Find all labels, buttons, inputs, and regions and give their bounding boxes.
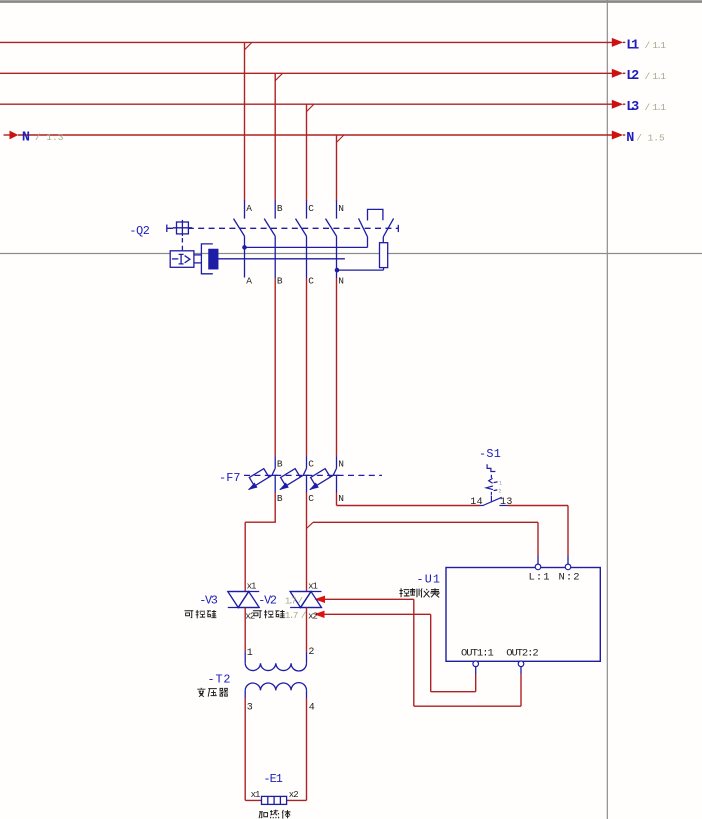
wire N bus left tail bbox=[4, 134, 10, 136]
E1 heating element body bbox=[262, 796, 287, 804]
T2 secondary left stub bbox=[244, 690, 246, 698]
svg-text:-F7: -F7 bbox=[219, 471, 241, 485]
destination arrow L2 bbox=[612, 69, 623, 78]
svg-text:A: A bbox=[246, 203, 252, 214]
wire down to L:1 bbox=[537, 522, 539, 555]
wire L3 bus bbox=[0, 103, 612, 105]
svg-text:L1: L1 bbox=[626, 38, 639, 53]
Q2 residual current solenoid (filled) bbox=[209, 249, 218, 268]
wire N drop to pole N bbox=[336, 135, 338, 201]
wire N bus bbox=[18, 134, 612, 136]
svg-text:-U1: -U1 bbox=[417, 572, 441, 586]
E1 function text 加热体 bbox=[259, 810, 290, 819]
Q2 overcurrent release box I> bbox=[170, 251, 194, 267]
svg-text:A: A bbox=[246, 275, 252, 286]
V2 triac right triangle bbox=[301, 592, 322, 608]
junction diagonal N bbox=[337, 135, 344, 142]
svg-text:C: C bbox=[308, 275, 314, 286]
Q2 I> symbol left tick bbox=[172, 258, 178, 260]
svg-text:B: B bbox=[277, 458, 283, 469]
F7 pole B bottom stub bbox=[274, 475, 276, 492]
V2 function text 可控硅 bbox=[253, 610, 285, 619]
T2 function text 变压器 bbox=[197, 688, 228, 697]
svg-text:4: 4 bbox=[309, 703, 315, 714]
F7 mechanical linkage dashed line bbox=[244, 474, 382, 476]
F7 pole N top stub bbox=[336, 457, 338, 469]
svg-text:N: N bbox=[338, 203, 344, 214]
svg-text:N: N bbox=[22, 130, 30, 145]
Q2 pole A bottom stub bbox=[244, 236, 246, 277]
wire OUT2 left bbox=[414, 705, 521, 707]
svg-text:2: 2 bbox=[498, 489, 501, 495]
S1 linkage dash upper bbox=[490, 475, 492, 478]
Q2 trip bar line bbox=[218, 258, 345, 260]
S1 contact blade 13-14 bbox=[483, 497, 502, 505]
svg-text:x1: x1 bbox=[247, 582, 257, 592]
S1 position dash 1 bbox=[494, 481, 498, 484]
E1 element divider 1 bbox=[267, 796, 269, 804]
svg-text:/ 1.5: / 1.5 bbox=[636, 133, 665, 144]
F7 pole B thermal bump bbox=[249, 469, 269, 486]
Q2 test contact left lower stub bbox=[367, 237, 369, 248]
Q2 release to coil stub lower bbox=[194, 262, 202, 264]
Q2 I> symbol letter I bbox=[179, 254, 184, 264]
V3 triac left triangle bbox=[228, 592, 249, 608]
destination arrow N right bbox=[612, 131, 623, 140]
V3 triac right triangle bbox=[238, 592, 259, 608]
S1 left terminal tick bbox=[480, 505, 484, 507]
Q2 test button cross vertical bbox=[181, 220, 183, 236]
wire F7 N down bbox=[336, 493, 338, 506]
wire OUT1 up bbox=[430, 614, 432, 691]
F7 pole C blade bbox=[280, 468, 307, 489]
wire T2 pin3 down to E1 bbox=[244, 698, 246, 800]
svg-text:/ 1.1: / 1.1 bbox=[645, 71, 667, 82]
Q2 test wire from pole A bbox=[245, 246, 368, 248]
arrow L3 tail bbox=[623, 103, 625, 105]
svg-text:B: B bbox=[277, 275, 283, 286]
svg-text:N: N bbox=[626, 131, 634, 146]
Q2 linkage right end tick bbox=[397, 225, 399, 232]
T2 primary winding bbox=[245, 663, 306, 671]
svg-text:2: 2 bbox=[308, 647, 314, 658]
Q2 test contact left blade bbox=[359, 218, 368, 236]
svg-text:1: 1 bbox=[247, 648, 253, 659]
Q2 pole A top stub bbox=[244, 201, 246, 219]
wire V3 x2 down to T2 pin1 bbox=[244, 608, 246, 653]
Q2 test button cross horizontal bbox=[173, 227, 192, 229]
svg-text:L:1: L:1 bbox=[529, 572, 550, 584]
Q2 test return wire to pole N bbox=[337, 269, 384, 271]
svg-text:OUT1:1: OUT1:1 bbox=[461, 647, 494, 659]
interrupt arrow to V2 x2 lower bbox=[314, 611, 325, 618]
wire OUT2 up bbox=[413, 599, 415, 706]
Q2 test contact right blade bbox=[383, 218, 393, 236]
svg-text:-T2: -T2 bbox=[208, 672, 231, 686]
wire down to N:2 bbox=[567, 506, 569, 556]
junction dot pole A bbox=[242, 245, 247, 250]
U1 OUT1 blue stub bbox=[475, 667, 477, 674]
junction dot pole N bbox=[335, 268, 340, 273]
T2 secondary winding bbox=[245, 683, 306, 691]
Q2 pole B blade bbox=[264, 219, 275, 237]
Q2 I> symbol greater-than bbox=[185, 256, 190, 263]
Q2 pole C blade bbox=[296, 219, 307, 237]
wire L1 bus bbox=[0, 41, 612, 43]
svg-text:/ 1.1: / 1.1 bbox=[645, 102, 667, 113]
Q2 pole B bottom stub bbox=[274, 236, 276, 278]
T2 primary right stub bbox=[306, 653, 308, 664]
svg-text:x1: x1 bbox=[251, 790, 261, 800]
destination arrow L1 bbox=[612, 38, 623, 47]
Q2 coil bracket bbox=[201, 244, 212, 274]
wire S1 to N:2 corner bbox=[508, 505, 568, 507]
S1 linkage to blade bbox=[490, 496, 492, 502]
F7 pole C thermal bump bbox=[281, 469, 301, 486]
svg-text:N: N bbox=[338, 493, 344, 504]
U1 function text 控制仪表 bbox=[400, 588, 440, 597]
svg-text:N: N bbox=[338, 275, 344, 286]
wire OUT1 down bbox=[475, 674, 477, 692]
F7 pole N trip arrow bbox=[309, 483, 319, 491]
Q2 pole A blade bbox=[234, 219, 245, 237]
svg-text:x2: x2 bbox=[289, 790, 299, 800]
wire down to V3 bbox=[244, 522, 246, 591]
T2 secondary right stub bbox=[306, 690, 308, 698]
svg-text:C: C bbox=[308, 458, 314, 469]
wire L3 drop to pole C bbox=[306, 104, 308, 201]
V3 triac top bar bbox=[228, 591, 259, 593]
wire V2 x2 down to T2 pin2 bbox=[306, 608, 308, 653]
wire L1 drop to pole A bbox=[244, 42, 246, 201]
V2 triac bottom bar bbox=[290, 607, 321, 609]
svg-text:3: 3 bbox=[247, 703, 253, 714]
svg-text:14: 14 bbox=[470, 497, 482, 508]
Q2 pole N bottom stub bbox=[336, 236, 338, 278]
Q2 pole B top stub bbox=[274, 201, 276, 219]
Q2 pole C bottom stub bbox=[306, 236, 308, 278]
F7 pole B trip arrow bbox=[248, 483, 258, 491]
E1 element divider 2 bbox=[273, 796, 275, 804]
wire OUT2 down bbox=[520, 674, 522, 706]
arrow L1 tail bbox=[623, 41, 625, 43]
svg-text:-Q2: -Q2 bbox=[129, 224, 150, 238]
junction diagonal L2 bbox=[275, 73, 282, 80]
interrupt arrow to V2 gate upper bbox=[315, 596, 326, 603]
S1 right terminal segment bbox=[499, 505, 507, 507]
Q2 pole C top stub bbox=[306, 201, 308, 219]
junction diagonal C branch bbox=[307, 522, 314, 528]
wire pole N down to F7 bbox=[336, 278, 338, 457]
Q2 mechanical linkage dashed line bbox=[167, 227, 398, 229]
wire F7 B jog left bbox=[245, 521, 276, 523]
wire F7 N to S1 bbox=[337, 505, 480, 507]
E1 element divider 3 bbox=[279, 796, 281, 804]
svg-text:/ 1.1: / 1.1 bbox=[645, 40, 667, 51]
F7 pole B pivot tick bbox=[272, 474, 278, 476]
source arrow N left bbox=[10, 131, 19, 140]
Q2 test contact right lower stub bbox=[382, 237, 384, 243]
wire F7 B down bbox=[274, 493, 276, 523]
wire L2 bus bbox=[0, 72, 612, 74]
svg-text:-V3: -V3 bbox=[199, 593, 218, 607]
wire C branch to U1 L terminal bbox=[313, 521, 538, 523]
wire OUT1 left bbox=[431, 691, 476, 693]
S1 detent zigzag upper bbox=[489, 478, 493, 483]
Q2 pole N blade bbox=[326, 219, 337, 237]
S1 position dash 2 bbox=[494, 489, 498, 492]
svg-text:L3: L3 bbox=[626, 100, 639, 115]
S1 linkage dash lower bbox=[490, 492, 492, 495]
wire T2 pin4 down to E1 bbox=[306, 698, 308, 800]
wire F7 C down to V2 bbox=[306, 493, 308, 592]
T2 primary left stub bbox=[244, 653, 246, 664]
F7 pole N blade bbox=[310, 468, 337, 489]
arrow N tail bbox=[623, 134, 625, 136]
svg-text:1: 1 bbox=[499, 481, 502, 487]
wire pole B down to F7 bbox=[274, 278, 276, 457]
svg-text:OUT2:2: OUT2:2 bbox=[506, 647, 539, 659]
Q2 release to coil stub upper bbox=[194, 254, 202, 256]
wire E1 right horizontal bbox=[287, 799, 307, 801]
svg-text:N: N bbox=[338, 458, 344, 469]
S1 actuator staircase bbox=[487, 464, 495, 471]
F7 pole C pivot tick bbox=[303, 474, 309, 476]
svg-text:1.7 /: 1.7 / bbox=[285, 595, 304, 606]
V2 triac top bar bbox=[290, 591, 321, 593]
Q2 dashed link to overcurrent release bbox=[181, 238, 183, 251]
V3 triac bottom bar bbox=[228, 607, 259, 609]
svg-text:C: C bbox=[308, 493, 314, 504]
Q2 pole N top stub bbox=[336, 201, 338, 219]
F7 pole N pivot tick bbox=[333, 474, 339, 476]
F7 pole N thermal bump bbox=[311, 469, 331, 486]
F7 pole C bottom stub bbox=[306, 475, 308, 492]
svg-text:B: B bbox=[277, 493, 283, 504]
svg-text:x2: x2 bbox=[308, 611, 318, 621]
F7 pole N bottom stub bbox=[336, 475, 338, 492]
page frame middle horizontal line bbox=[0, 253, 702, 255]
wire OUT2 to V2 x1 arrow bbox=[325, 598, 414, 600]
page frame top line bbox=[0, 0, 702, 3]
arrow L2 tail bbox=[623, 72, 625, 74]
Q2 linkage left end tick bbox=[166, 225, 168, 233]
svg-text:-V2: -V2 bbox=[258, 593, 277, 607]
svg-text:B: B bbox=[277, 203, 283, 214]
Q2 test contact bridge bbox=[368, 209, 383, 220]
svg-text:/ 1.3: / 1.3 bbox=[35, 132, 64, 143]
page frame right vertical line bbox=[606, 0, 608, 819]
V2 triac left triangle bbox=[290, 592, 311, 608]
U1 L:1 blue stub bbox=[537, 556, 539, 564]
svg-text:-S1: -S1 bbox=[479, 447, 501, 461]
svg-text:C: C bbox=[308, 203, 314, 214]
svg-text:N:2: N:2 bbox=[559, 572, 580, 584]
V3 function text 可控硅 bbox=[185, 610, 217, 619]
U1 terminal circle OUT1:1 bbox=[473, 661, 479, 667]
U1 terminal circle OUT2:2 bbox=[518, 661, 524, 667]
junction diagonal L3 bbox=[307, 104, 314, 111]
Q2 test resistor bbox=[380, 243, 388, 268]
F7 pole B blade bbox=[249, 468, 276, 489]
U1 terminal circle L:1 bbox=[535, 564, 541, 570]
svg-text:-E1: -E1 bbox=[264, 772, 283, 786]
controller U1 box bbox=[446, 568, 600, 662]
wire pole C down to F7 bbox=[306, 278, 308, 457]
svg-text:L2: L2 bbox=[626, 69, 639, 84]
junction diagonal L1 bbox=[245, 42, 252, 49]
svg-text:1.7 /: 1.7 / bbox=[285, 610, 307, 621]
wire L2 drop to pole B bbox=[274, 73, 276, 201]
wire OUT1 to V2 x2 arrow bbox=[324, 613, 431, 615]
U1 OUT2 blue stub bbox=[520, 667, 522, 674]
F7 pole B top stub bbox=[274, 457, 276, 469]
Q2 test button crossed square bbox=[177, 222, 189, 234]
destination arrow L3 bbox=[612, 100, 623, 109]
svg-text:x1: x1 bbox=[308, 582, 318, 592]
Q2 test resistor bottom stub bbox=[383, 268, 385, 271]
wire E1 left horizontal bbox=[245, 799, 261, 801]
F7 pole C trip arrow bbox=[279, 483, 289, 491]
F7 pole C top stub bbox=[306, 457, 308, 469]
U1 N:2 blue stub bbox=[567, 556, 569, 564]
S1 detent zigzag lower bbox=[486, 486, 493, 490]
U1 terminal circle N:2 bbox=[565, 564, 571, 570]
